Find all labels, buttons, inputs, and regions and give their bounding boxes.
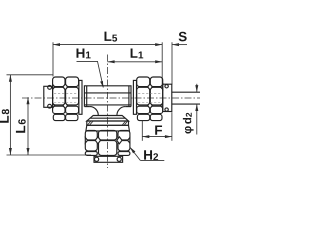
side second row lobes <box>85 141 97 151</box>
diamond upper <box>63 84 68 90</box>
collar circle top <box>48 86 52 90</box>
label H1 with leader <box>77 49 91 59</box>
wire: S left extension line <box>161 42 163 84</box>
body bottom right segment <box>125 106 131 108</box>
label H2 with leader <box>144 150 158 160</box>
dimension L6 vertical <box>27 97 29 155</box>
body bottom left segment <box>84 106 90 108</box>
half diamond outer right <box>128 138 130 144</box>
dimension F <box>141 121 143 141</box>
label F <box>155 126 162 135</box>
collar circle left <box>95 157 99 161</box>
collar circle top <box>165 85 168 88</box>
left port collar <box>44 86 53 109</box>
left nut <box>53 77 79 121</box>
diamond left <box>95 137 100 144</box>
wire: bottom extension line <box>7 154 92 156</box>
bottom row lobes <box>137 114 149 120</box>
bottom row lobes <box>53 114 65 120</box>
collar circle bottom <box>165 108 168 111</box>
body bore top <box>84 92 131 94</box>
branch flange inner line <box>90 117 125 119</box>
wire: L8 top extension <box>7 74 53 76</box>
dimension L1 line <box>108 61 163 63</box>
left washer <box>79 80 82 114</box>
dimension phi d2 <box>196 84 198 92</box>
tube bottom line <box>172 103 200 105</box>
upper row lobes <box>85 130 97 140</box>
diamond upper <box>148 84 153 90</box>
branch flange trapezoid <box>87 116 129 122</box>
top row lobes <box>137 77 150 87</box>
right fillet <box>117 107 125 116</box>
dimension L8 vertical <box>9 75 11 155</box>
body inner flange line left <box>86 86 88 107</box>
right collar <box>163 84 172 111</box>
right nut <box>137 77 163 121</box>
center tall lobe <box>99 141 117 156</box>
collar circle right <box>117 157 121 161</box>
branch nut <box>85 130 130 155</box>
dimension L5 line <box>53 44 162 46</box>
diamond right <box>117 137 122 144</box>
third row lobes <box>53 106 65 113</box>
body outline <box>84 86 131 107</box>
side third row lobes <box>85 152 97 156</box>
label L1 <box>131 49 144 59</box>
centerline horizontal (main run axis) <box>22 97 200 99</box>
tube top line <box>172 91 200 93</box>
body of tee fitting <box>84 86 131 116</box>
half diamond right lower <box>161 103 163 108</box>
right nut thread lines <box>138 93 161 102</box>
dimension S arrows and line <box>172 43 179 46</box>
hatch right <box>122 121 127 125</box>
mid row lobes <box>53 87 65 105</box>
half diamond right upper <box>161 84 163 89</box>
half diamond left lower <box>53 103 55 108</box>
branch flange band <box>87 121 129 125</box>
body bore bottom <box>84 104 131 106</box>
half diamond left upper <box>53 84 55 89</box>
hatch left <box>88 121 93 125</box>
half diamond outer left <box>85 138 87 144</box>
wire: L5 left extension line <box>52 42 54 76</box>
label phi d2 (rotated) <box>183 113 194 134</box>
top row lobes <box>53 77 65 87</box>
label S <box>179 32 187 42</box>
diamond lower <box>63 103 68 109</box>
right washer <box>133 80 136 114</box>
third row lobes <box>137 106 150 113</box>
body inner flange line right <box>128 86 130 107</box>
centerline vertical (branch axis) <box>107 55 109 169</box>
diamond lower <box>148 103 153 109</box>
wire: S right extension line <box>171 42 173 84</box>
label L5 <box>105 32 118 42</box>
collar circle bottom <box>48 104 52 108</box>
label L6 (rotated) <box>16 119 26 133</box>
branch collar <box>94 156 123 162</box>
left fillet <box>90 107 98 116</box>
label L8 (rotated) <box>0 109 9 123</box>
branch flange lower band <box>86 125 129 131</box>
left nut thread lines <box>54 93 77 102</box>
mid row lobes <box>137 87 150 105</box>
